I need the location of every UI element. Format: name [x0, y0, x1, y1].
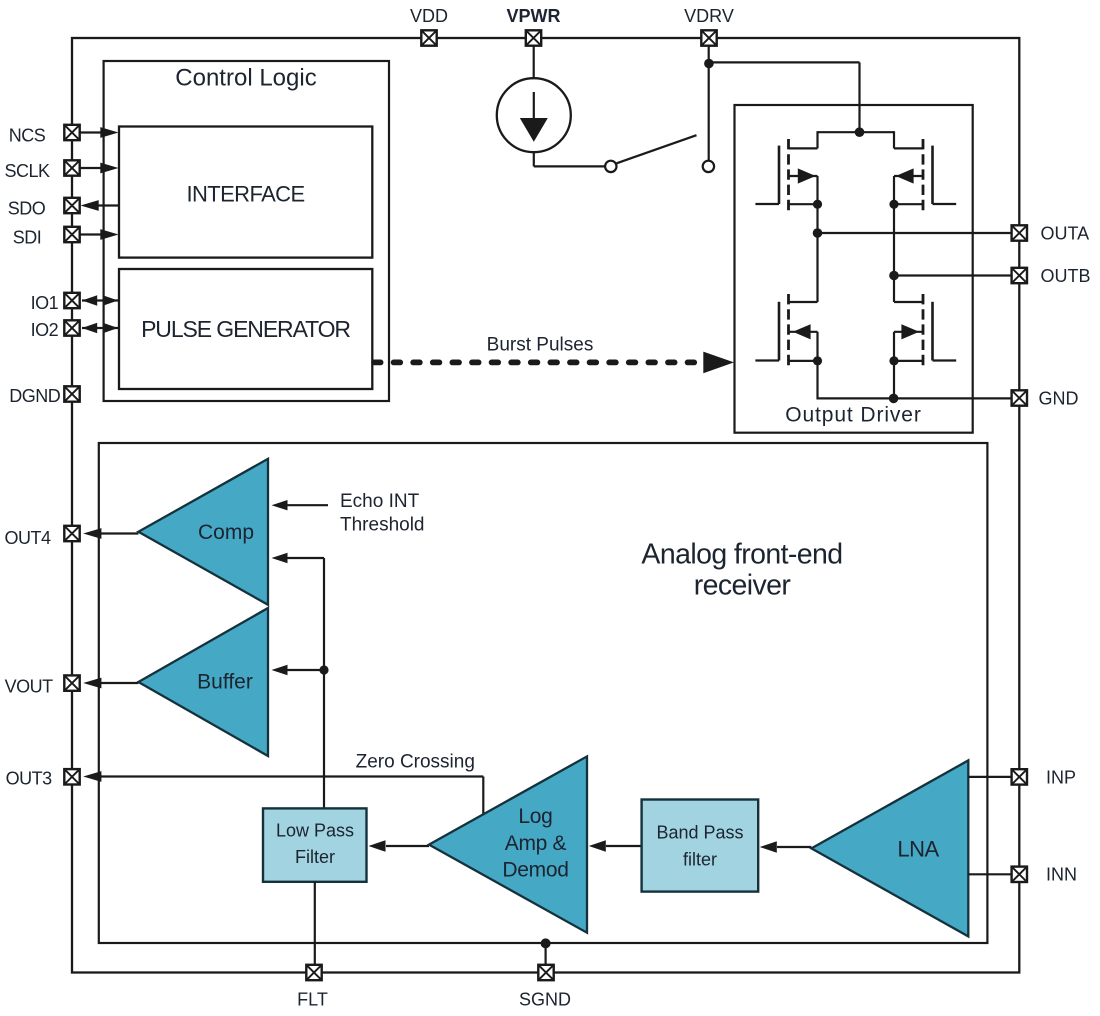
wire low pass filter output up to Comp/Buffer: [323, 558, 325, 808]
svg-text:VDRV: VDRV: [684, 6, 734, 26]
svg-text:Log: Log: [518, 805, 552, 828]
pin VDRV: [701, 30, 716, 45]
svg-text:filter: filter: [683, 850, 717, 870]
svg-text:Burst Pulses: Burst Pulses: [487, 335, 594, 356]
wire Log Amp to Low Pass Filter: [369, 840, 430, 852]
pin NCS: [64, 125, 79, 140]
Burst Pulses dashed arrow: [374, 352, 734, 374]
wire NCS to INTERFACE: [80, 127, 119, 138]
H-bridge top rail: [818, 131, 895, 133]
svg-text:Output Driver: Output Driver: [785, 403, 922, 426]
wire Q3 source to bottom rail: [816, 361, 818, 400]
svg-text:OUTB: OUTB: [1041, 266, 1091, 286]
svg-text:OUT3: OUT3: [6, 769, 52, 789]
wire SCLK to INTERFACE: [80, 163, 119, 174]
switch blade: [617, 135, 697, 163]
svg-text:Echo INT: Echo INT: [340, 491, 420, 512]
pin VDD: [421, 30, 436, 45]
wire Band Pass filter to Log Amp: [589, 840, 642, 852]
svg-text:receiver: receiver: [694, 570, 792, 602]
svg-text:Band Pass: Band Pass: [656, 822, 743, 842]
wire IO1 to PULSE GENERATOR (bidirectional): [82, 295, 118, 305]
svg-text:Control Logic: Control Logic: [175, 65, 316, 92]
svg-text:SGND: SGND: [519, 990, 571, 1010]
wire current source to switch: [534, 152, 606, 166]
wire Q1 drain to top rail: [816, 131, 818, 148]
transistor Q4 (low-side right): [889, 294, 956, 368]
svg-text:SDI: SDI: [13, 228, 42, 248]
Output Driver box: [735, 105, 973, 433]
svg-text:IO1: IO1: [31, 293, 59, 313]
pin SDI: [64, 227, 79, 242]
svg-text:INTERFACE: INTERFACE: [186, 182, 304, 207]
Band Pass filter label: [656, 822, 743, 869]
wire Zero Crossing to OUT3: [83, 771, 483, 817]
svg-text:OUT4: OUT4: [4, 528, 50, 548]
svg-text:Comp: Comp: [198, 521, 254, 544]
wire Q2 source down to OUTB node: [893, 204, 895, 275]
wire VDRV node to H-bridge: [709, 62, 860, 132]
node AFE ground: [541, 938, 551, 948]
pin OUT4: [64, 526, 79, 541]
svg-text:VPWR: VPWR: [507, 6, 561, 26]
svg-text:Low Pass: Low Pass: [276, 821, 354, 841]
wire feedback to Buffer input: [272, 665, 325, 675]
wire OUTB: [894, 274, 1012, 276]
node top rail center: [855, 127, 865, 137]
transistor Q2 (high-side right): [889, 139, 956, 214]
pin VOUT: [64, 675, 79, 690]
node VDRV branch: [704, 59, 714, 69]
wire AFE ground to SGND: [544, 943, 546, 966]
Control Logic box: [104, 61, 389, 401]
wire OUTB node to Q4 drain: [893, 276, 895, 303]
H-bridge bottom rail / wire to GND: [818, 397, 1013, 399]
pin SDO: [64, 198, 79, 213]
pin SCLK: [64, 160, 79, 175]
svg-text:Zero Crossing: Zero Crossing: [356, 752, 475, 773]
wire OUTA node to Q3 drain: [816, 233, 818, 302]
pin OUT3: [64, 769, 79, 784]
wire VDRV down to switch: [708, 46, 710, 161]
svg-text:DGND: DGND: [9, 386, 60, 406]
pin INP: [1012, 769, 1027, 784]
svg-text:VOUT: VOUT: [5, 676, 54, 696]
Analog front-end receiver box: [99, 443, 988, 943]
comparator Comp: [138, 459, 268, 605]
wire feedback to Comp input: [272, 553, 325, 563]
wire IO2 to PULSE GENERATOR (bidirectional): [82, 323, 118, 333]
svg-text:Amp &: Amp &: [505, 832, 567, 855]
svg-text:PULSE GENERATOR: PULSE GENERATOR: [141, 316, 350, 342]
Low Pass Filter box: [263, 808, 367, 881]
wire INN to LNA: [968, 873, 1012, 875]
Log Amp & Demod label: [502, 805, 568, 881]
svg-text:LNA: LNA: [897, 837, 939, 862]
buffer Buffer: [138, 608, 268, 756]
wire Comp output to OUT4: [83, 528, 138, 539]
wire Buffer output to VOUT: [83, 678, 138, 689]
wire INP to LNA: [968, 776, 1012, 778]
node Buffer feedback: [319, 665, 328, 674]
Echo INT Threshold label: [340, 491, 425, 535]
pin OUTA: [1012, 225, 1027, 240]
svg-text:OUTA: OUTA: [1041, 223, 1090, 243]
amplifier Log Amp & Demod: [429, 756, 587, 932]
Analog front-end receiver label: [641, 539, 842, 602]
node OUTA: [813, 228, 823, 238]
svg-text:Demod: Demod: [502, 858, 568, 881]
wire Q1 source down to OUTA node: [816, 204, 818, 233]
pin SGND: [538, 965, 553, 980]
svg-text:IO2: IO2: [31, 320, 59, 340]
transistor Q1 (high-side left): [755, 139, 822, 214]
svg-text:Filter: Filter: [295, 847, 335, 867]
svg-text:INP: INP: [1046, 767, 1076, 787]
svg-text:Buffer: Buffer: [197, 671, 253, 694]
pin IO1: [64, 293, 79, 308]
wire VPWR to current source: [533, 46, 535, 79]
current source: [497, 78, 571, 152]
svg-text:FLT: FLT: [297, 990, 328, 1010]
wire SDI to INTERFACE: [80, 229, 119, 240]
wire Q4 source to bottom rail: [893, 361, 895, 400]
wire LNA to Band Pass filter: [760, 841, 812, 853]
wire SDO to INTERFACE: [81, 200, 120, 211]
wire Echo INT Threshold to Comp: [272, 500, 329, 510]
pin IO2: [64, 320, 79, 335]
switch contact left: [605, 161, 616, 172]
chip boundary: [72, 38, 1019, 973]
wire Q2 drain to top rail: [893, 131, 895, 148]
INTERFACE box: [119, 127, 372, 258]
pin INN: [1012, 867, 1027, 882]
svg-text:SCLK: SCLK: [4, 161, 50, 181]
svg-text:INN: INN: [1046, 865, 1077, 885]
svg-text:Threshold: Threshold: [340, 514, 425, 535]
svg-text:GND: GND: [1039, 388, 1079, 408]
wire OUTA: [818, 232, 1013, 234]
svg-text:Analog front-end: Analog front-end: [641, 539, 842, 571]
Band Pass filter box: [642, 800, 759, 892]
transistor Q3 (low-side left): [755, 294, 822, 368]
pin VPWR: [526, 30, 541, 45]
switch contact right: [703, 161, 714, 172]
node OUTB: [889, 271, 899, 281]
Low Pass Filter label: [276, 821, 354, 867]
wire Low Pass Filter to FLT: [314, 882, 316, 966]
pin DGND: [64, 386, 79, 401]
pin FLT: [306, 965, 321, 980]
svg-text:VDD: VDD: [410, 6, 448, 26]
pin GND: [1012, 390, 1027, 405]
svg-text:NCS: NCS: [9, 126, 46, 146]
PULSE GENERATOR box: [119, 269, 372, 389]
svg-text:SDO: SDO: [8, 199, 46, 219]
amplifier LNA: [811, 760, 968, 936]
pin OUTB: [1012, 268, 1027, 283]
node bottom rail: [889, 394, 899, 404]
